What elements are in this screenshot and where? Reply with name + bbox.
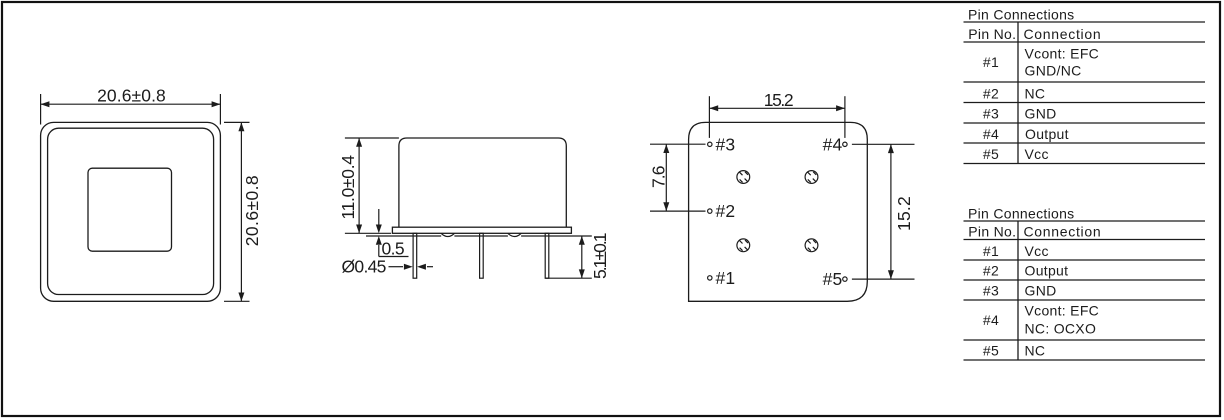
svg-text:Connection: Connection <box>1024 26 1102 42</box>
svg-text:Output: Output <box>1025 126 1069 142</box>
bottom view: 15.2 top extension line left <box>708 96 710 138</box>
svg-text:#4: #4 <box>983 312 999 328</box>
bottom view: mounting hole top-right <box>805 171 818 184</box>
svg-text:NC: NC <box>1025 85 1046 101</box>
top view: height dimension line <box>240 122 242 301</box>
svg-text:NC: NC <box>1025 343 1046 359</box>
table 2: column divider <box>1017 221 1019 360</box>
svg-text:Output: Output <box>1025 263 1069 279</box>
bottom view: mounting hole bottom-right <box>805 239 818 252</box>
svg-text:15.2: 15.2 <box>764 90 793 110</box>
svg-text:15.2: 15.2 <box>894 196 914 231</box>
side view: flange 0.5 upper arrow <box>378 209 380 225</box>
svg-text:20.6±0.8: 20.6±0.8 <box>97 86 166 106</box>
side view: pin length arrow bottom <box>579 269 585 278</box>
bottom view: 7.6 extension line top <box>650 143 706 145</box>
svg-text:GND: GND <box>1025 106 1057 122</box>
svg-text:#2: #2 <box>983 85 999 101</box>
table 2: row #4 underline <box>964 339 1206 341</box>
svg-text:GND/NC: GND/NC <box>1025 63 1082 79</box>
svg-text:Vcc: Vcc <box>1025 146 1049 162</box>
side view: pin center <box>480 233 484 278</box>
side view: pin left <box>413 233 417 278</box>
bottom view: 15.2 right extension line top <box>852 143 915 145</box>
svg-text:Connection: Connection <box>1024 224 1102 240</box>
bottom view: package outline <box>689 122 868 301</box>
side view: standoff bump right <box>508 233 521 236</box>
bottom view: pin #3 circle <box>708 142 712 146</box>
table 1: header underline <box>964 41 1206 43</box>
svg-text:5.1±0.1: 5.1±0.1 <box>590 233 610 279</box>
bottom view: 15.2 top dimension line <box>709 107 845 109</box>
svg-text:#1: #1 <box>716 268 736 288</box>
bottom view: 15.2 top arrow left <box>709 105 718 111</box>
side view: flange 0.5 lower arrow <box>378 245 380 257</box>
table 2: title underline <box>964 220 1206 222</box>
svg-text:0.5: 0.5 <box>382 239 405 259</box>
bottom view: 7.6 extension line bottom <box>650 210 706 212</box>
top view: width dimension line <box>41 103 221 105</box>
svg-text:GND: GND <box>1025 283 1057 299</box>
svg-text:#1: #1 <box>983 54 999 70</box>
side view: base flange <box>392 227 571 233</box>
side view: 0.5 text underline <box>379 256 409 258</box>
table 1: column divider <box>1017 22 1019 164</box>
table 1: row #4 underline <box>964 142 1206 144</box>
bottom view: mounting hole top-left <box>737 171 750 184</box>
top view: center square marking <box>88 168 172 251</box>
table 1: row #1 underline <box>964 81 1206 83</box>
top view: width dim arrow right <box>212 101 221 107</box>
side view: height dim arrow top <box>356 138 362 147</box>
table 1: row #3 underline <box>964 122 1206 124</box>
bottom view: 15.2 right dimension line <box>890 144 892 279</box>
svg-text:#4: #4 <box>823 134 843 154</box>
side view: pin right <box>545 233 549 278</box>
svg-text:Vcc: Vcc <box>1025 243 1049 259</box>
svg-text:#1: #1 <box>983 243 999 259</box>
table 1: row #2 underline <box>964 102 1206 104</box>
svg-text:#2: #2 <box>716 201 736 221</box>
svg-text:#2: #2 <box>983 263 999 279</box>
svg-text:#5: #5 <box>823 269 843 289</box>
bottom view: 7.6 arrow top <box>663 144 669 153</box>
svg-text:Ø0.45: Ø0.45 <box>342 257 386 277</box>
top view: width extension line right <box>219 94 221 125</box>
svg-text:Vcont: EFC: Vcont: EFC <box>1025 303 1100 319</box>
side view: height dim arrow bottom <box>356 225 362 234</box>
table 2: header underline <box>964 239 1206 241</box>
svg-text:20.6±0.8: 20.6±0.8 <box>242 175 262 246</box>
svg-text:NC: OCXO: NC: OCXO <box>1025 320 1097 336</box>
table 1: title underline <box>964 21 1206 23</box>
side view: standoff plane line segment 3 <box>521 235 592 237</box>
bottom view: 7.6 dimension line <box>665 144 667 211</box>
bottom view: 15.2 right arrow bottom <box>888 270 894 279</box>
side view: can body <box>399 138 566 227</box>
svg-text:#3: #3 <box>983 106 999 122</box>
table 1: row #5 underline <box>964 163 1206 165</box>
bottom view: mounting hole bottom-left <box>737 239 750 252</box>
svg-text:#3: #3 <box>983 283 999 299</box>
top view: height extension line bottom <box>224 300 250 302</box>
side view: pin length arrow top <box>579 236 585 245</box>
bottom view: pin #2 circle <box>708 209 712 213</box>
table 2: row #3 underline <box>964 299 1206 301</box>
svg-text:#5: #5 <box>983 146 999 162</box>
side view: pin length extension line <box>545 277 591 279</box>
svg-text:11.0±0.4: 11.0±0.4 <box>338 155 358 220</box>
bottom view: 15.2 right arrow top <box>888 144 894 153</box>
bottom view: 15.2 right extension line bottom <box>852 278 915 280</box>
svg-text:Pin No.: Pin No. <box>968 26 1016 42</box>
svg-text:#4: #4 <box>983 126 999 142</box>
bottom view: pin #1 circle <box>708 276 712 280</box>
bottom view: 15.2 top arrow right <box>836 105 845 111</box>
side view: pin diameter leader left arrow <box>389 266 404 268</box>
side view: seating plane line <box>345 232 391 234</box>
bottom view: pin #5 circle <box>843 277 847 281</box>
bottom view: 7.6 arrow bottom <box>663 202 669 211</box>
side view: pin length dimension line 5.1 <box>581 236 583 278</box>
table 2: row #5 underline <box>964 359 1206 361</box>
top view: inner lid outline <box>48 128 214 294</box>
top view: height dim arrow top <box>238 122 244 131</box>
svg-text:#3: #3 <box>716 134 736 154</box>
svg-text:Pin Connections: Pin Connections <box>968 206 1074 222</box>
side view: pin diameter right arrow <box>427 266 433 268</box>
side view: body top extension line <box>345 137 399 139</box>
top view: height extension line top <box>224 121 250 123</box>
table 2: row #2 underline <box>964 279 1206 281</box>
side view: standoff bump left <box>441 233 454 236</box>
bottom view: pin #4 circle <box>843 142 847 146</box>
svg-text:Pin Connections: Pin Connections <box>968 7 1074 23</box>
side view: height dimension line 11.0 <box>358 138 360 233</box>
svg-text:Pin No.: Pin No. <box>968 224 1016 240</box>
table 2: row #1 underline <box>964 259 1206 261</box>
top view: width extension line left <box>40 94 42 125</box>
top view: width dim arrow left <box>41 101 50 107</box>
svg-text:Vcont: EFC: Vcont: EFC <box>1025 46 1100 62</box>
top view: height dim arrow bottom <box>238 293 244 302</box>
side view: standoff plane line segment 1 <box>366 235 441 237</box>
bottom view: 15.2 top extension line right <box>844 96 846 138</box>
svg-text:#5: #5 <box>983 343 999 359</box>
svg-text:7.6: 7.6 <box>649 166 669 188</box>
side view: standoff plane line segment 2 <box>454 235 508 237</box>
top view: outer package outline <box>41 122 221 301</box>
